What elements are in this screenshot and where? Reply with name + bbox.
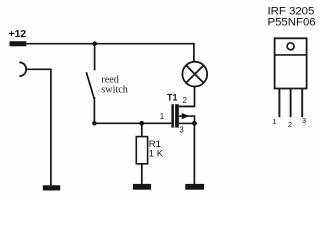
transistor T1 channel bar [175,104,179,127]
svg-text:2: 2 [182,96,187,105]
wire: source to ground [193,123,195,184]
label R1 1K [149,139,164,160]
node: source junction [192,121,197,126]
ground (left) [43,185,60,190]
wire: return terminal to ground [26,69,51,185]
wire: +12 rail to lamp [26,44,194,62]
transistor T1 gate bar [171,104,174,127]
TO-220 leg 3 [301,89,303,118]
reed switch blade [86,72,94,99]
resistor R1 [136,137,147,164]
svg-text:+12: +12 [9,29,27,40]
transistor T1 body arrow [179,113,195,123]
label: reed switch [101,74,128,95]
TO-220 mounting hole [287,43,294,50]
ground (right) [185,184,204,190]
0V return terminal (socket contact) [19,62,26,76]
TO-220 package outline [275,38,307,88]
TO-220 tab separator [275,54,307,56]
TO-220 leg 2 [290,89,292,118]
wire: source stub [179,122,195,124]
svg-text:1: 1 [160,112,165,121]
lamp L1 [182,62,207,87]
svg-text:1: 1 [272,117,276,126]
node: switch bottom junction [92,121,97,126]
wire: drain stub [179,105,195,107]
svg-text:P55NF06: P55NF06 [268,16,316,28]
svg-text:2: 2 [288,120,292,129]
svg-text:1 K: 1 K [149,149,164,160]
wire: switch lower contact [93,97,95,123]
wire: R1 to ground [141,164,143,185]
svg-text:3: 3 [302,116,306,125]
svg-text:switch: switch [101,85,128,96]
wire: junction to R1 [141,123,143,136]
svg-text:T1: T1 [167,92,178,102]
wire: lamp to drain [179,87,195,107]
ground (middle) [133,184,151,190]
node: rail junction [92,41,97,46]
TO-220 leg 1 [278,89,280,118]
wire: rail junction to switch contact [94,44,96,71]
+12 terminal [10,41,27,46]
node: resistor junction [139,121,144,126]
wire: switch to gate [94,122,171,124]
svg-text:3: 3 [179,126,184,135]
